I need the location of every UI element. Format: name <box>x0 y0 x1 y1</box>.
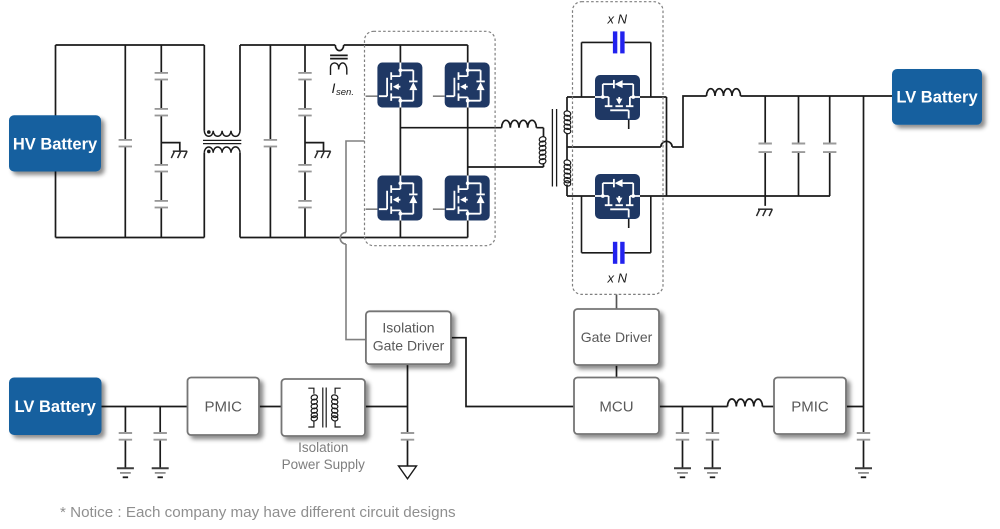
svg-text:* Notice : Each company may h: * Notice : Each company may have differe… <box>60 504 456 521</box>
svg-text:Gate Driver: Gate Driver <box>581 329 653 345</box>
svg-text:Power Supply: Power Supply <box>282 457 366 472</box>
svg-text:HV Battery: HV Battery <box>13 136 98 154</box>
svg-text:Isolation: Isolation <box>382 320 434 336</box>
svg-text:x N: x N <box>607 12 628 27</box>
svg-text:LV Battery: LV Battery <box>15 398 97 416</box>
svg-text:MCU: MCU <box>599 399 633 416</box>
svg-text:LV Battery: LV Battery <box>896 89 978 107</box>
svg-text:x N: x N <box>607 271 628 286</box>
svg-text:PMIC: PMIC <box>791 399 829 416</box>
svg-text:PMIC: PMIC <box>204 399 242 416</box>
svg-text:I: I <box>332 80 336 96</box>
svg-text:Isolation: Isolation <box>298 440 348 455</box>
svg-text:sen.: sen. <box>336 87 354 98</box>
svg-text:Gate Driver: Gate Driver <box>373 338 445 354</box>
